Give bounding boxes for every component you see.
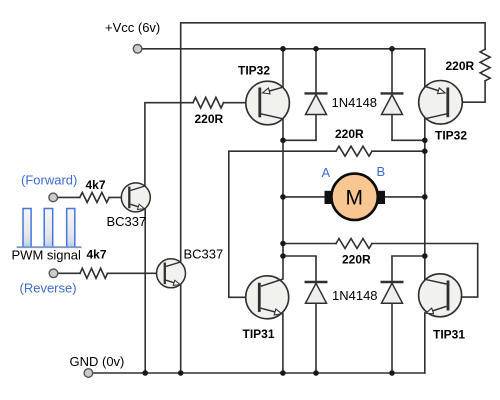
transistor Q4 TIP31 (NPN lower-right, mirrored) <box>419 274 462 317</box>
wire BC337 Q6 emitter to GND <box>180 285 182 374</box>
resistor 4k7 (forward) <box>80 192 109 202</box>
wire TIP31 Q4 emitter to GND <box>424 313 426 373</box>
wire diode D3 to node A <box>283 255 316 257</box>
wire Reverse input to 4k7 <box>58 272 80 274</box>
wire 220R to TIP32 Q1 base <box>224 102 260 104</box>
wire 4k7 to BC337 Q6 base <box>108 272 165 274</box>
svg-text:1N4148: 1N4148 <box>332 95 378 110</box>
transistor Q2 TIP32 (PNP upper-right, mirrored) <box>419 81 463 125</box>
svg-text:(Forward): (Forward) <box>21 173 77 188</box>
wire 4k7 to BC337 Q5 base <box>109 196 129 198</box>
svg-text:TIP32: TIP32 <box>238 63 270 77</box>
wire diode D2 to node B <box>392 139 425 141</box>
transistor Q1 TIP32 (PNP upper-left) <box>246 81 290 125</box>
wire top rail (reverse control line) from left rail to top-right corner <box>181 23 485 262</box>
diode D2 1N4148 (upper-right) <box>381 49 404 141</box>
resistor 220R (upper middle) <box>336 146 372 156</box>
terminal Forward <box>49 193 58 202</box>
wire TIP32 Q1 emitter to Vcc <box>282 49 284 87</box>
wire node B vertical (Q2 collector down to Q4 collector) <box>424 119 426 279</box>
wire upper 220R right end to node B <box>372 150 425 152</box>
diode D4 1N4148 (lower-right) <box>381 256 404 373</box>
resistor 4k7 (reverse) <box>80 268 108 278</box>
wire Forward input to 4k7 <box>58 196 80 198</box>
transistor Q3 TIP31 (NPN lower-left) <box>246 276 289 319</box>
transistor Q5 BC337 (NPN, forward input) <box>121 183 150 212</box>
motor M <box>325 174 386 220</box>
svg-text:GND (0v): GND (0v) <box>70 354 125 369</box>
wire lower 220R to TIP31 Q4 base <box>372 244 478 298</box>
wire motor terminal B <box>385 196 425 198</box>
diode D3 1N4148 (lower-left) <box>305 256 328 373</box>
diode D1 1N4148 (upper-left) <box>305 49 328 141</box>
wire from right 220R down to TIP32 base <box>448 81 485 102</box>
terminal Vcc <box>133 45 142 54</box>
svg-text:4k7: 4k7 <box>87 248 107 262</box>
resistor 220R (top right vertical) <box>480 49 490 81</box>
svg-text:B: B <box>377 164 386 179</box>
wire upper 220R to TIP31 Q3 base <box>229 151 336 297</box>
wire BC337 Q5 collector up to 220R and TIP32 Q1 base <box>145 103 193 186</box>
wire TIP32 Q2 emitter to Vcc <box>424 49 426 87</box>
node junction dots <box>142 46 427 376</box>
svg-text:TIP32: TIP32 <box>435 129 467 143</box>
PWM waveform <box>17 209 82 248</box>
resistor 220R (Q1 base) <box>193 97 224 108</box>
wire TIP31 Q3 emitter to GND <box>282 314 284 373</box>
wire GND rail <box>93 372 425 374</box>
wire diode D1 to node A <box>283 139 316 141</box>
svg-text:220R: 220R <box>446 59 475 73</box>
svg-text:TIP31: TIP31 <box>243 327 275 341</box>
resistor 220R (lower middle) <box>336 239 372 249</box>
wire diode D4 to node B <box>392 255 425 257</box>
wire BC337 Q5 emitter to GND <box>144 209 146 373</box>
terminal Reverse <box>49 269 58 278</box>
svg-text:BC337: BC337 <box>184 247 224 262</box>
terminal GND <box>84 369 93 378</box>
svg-text:+Vcc (6v): +Vcc (6v) <box>105 20 160 35</box>
wire lower 220R left end to node A <box>283 243 336 245</box>
wire node A vertical (Q1 collector down to Q3 collector) <box>282 119 284 279</box>
svg-text:TIP31: TIP31 <box>433 328 465 342</box>
svg-text:4k7: 4k7 <box>86 178 106 192</box>
svg-text:A: A <box>322 165 331 180</box>
wire motor terminal A <box>283 196 325 198</box>
wire TIP32 Q2 base from right 220R <box>448 101 463 103</box>
svg-text:M: M <box>346 187 364 210</box>
svg-text:220R: 220R <box>342 253 371 267</box>
transistor Q6 BC337 (NPN, reverse input) <box>157 259 186 288</box>
svg-text:(Reverse): (Reverse) <box>20 281 77 296</box>
wire Vcc rail <box>142 48 425 50</box>
svg-text:BC337: BC337 <box>107 214 147 229</box>
svg-text:220R: 220R <box>195 112 224 126</box>
svg-text:1N4148: 1N4148 <box>332 288 378 303</box>
svg-text:PWM signal: PWM signal <box>12 248 81 263</box>
svg-text:220R: 220R <box>335 127 364 141</box>
